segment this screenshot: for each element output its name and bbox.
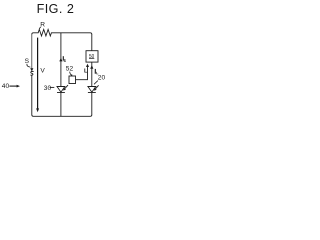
svg-text:20: 20	[98, 75, 106, 82]
svg-text:L: L	[84, 69, 88, 75]
svg-text:R: R	[40, 22, 45, 29]
svg-text:52: 52	[66, 65, 74, 72]
svg-text:50: 50	[89, 54, 95, 60]
svg-text:40: 40	[2, 83, 10, 90]
svg-text:V: V	[40, 68, 45, 75]
svg-text:30: 30	[44, 85, 52, 92]
svg-text:FIG. 2: FIG. 2	[37, 2, 75, 16]
svg-text:S: S	[25, 58, 30, 65]
